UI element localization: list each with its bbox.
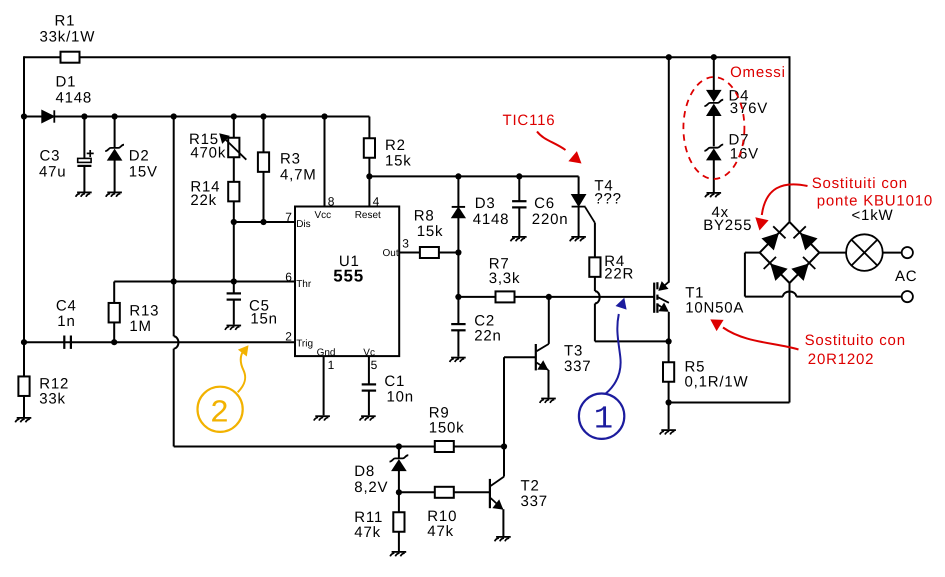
node R13 bottom on Trig wire	[111, 339, 117, 345]
svg-text:20R1202: 20R1202	[808, 351, 875, 368]
svg-text:T2: T2	[521, 478, 540, 495]
zener diode D7 16V	[704, 132, 758, 193]
svg-text:R13: R13	[129, 303, 159, 320]
wire bridge right corner to lamp	[819, 252, 846, 254]
ground under C2	[450, 358, 466, 362]
svg-text:Thr: Thr	[296, 279, 312, 290]
node at D1 anode / left vertical	[21, 113, 27, 119]
svg-text:C1: C1	[384, 373, 405, 390]
ground under C6	[511, 237, 527, 241]
svg-text:Dis: Dis	[296, 219, 310, 230]
diode D3 4148	[452, 176, 510, 252]
resistor R8 15k	[414, 208, 444, 259]
svg-text:4148: 4148	[473, 211, 510, 228]
node Thr wire x=233.8	[231, 278, 237, 284]
wire R5 bottom to ground	[668, 403, 670, 430]
AC terminal bottom	[902, 291, 913, 302]
svg-text:15n: 15n	[250, 311, 277, 328]
resistor R5 0,1R/1W	[663, 341, 748, 402]
svg-text:<1kW: <1kW	[852, 207, 894, 224]
node T3 collector on gate wire	[546, 294, 552, 300]
svg-text:15k: 15k	[417, 223, 444, 240]
resistor R3 4,7M	[258, 117, 317, 223]
wire T3 base to T2 collector vertical	[503, 357, 505, 446]
AC terminal top	[902, 247, 913, 258]
node C4/R12 junction	[21, 339, 27, 345]
node C6 top	[516, 173, 522, 179]
svg-text:47k: 47k	[354, 524, 381, 541]
svg-text:4,7M: 4,7M	[280, 167, 317, 184]
wire left vertical from top rail down to C4 node	[23, 56, 25, 342]
ground under pin1	[314, 416, 330, 420]
svg-text:555: 555	[333, 267, 364, 286]
wire long bottom rail from x=173.7 elbow to T2/T3 vertical	[174, 446, 504, 448]
svg-text:D3: D3	[475, 195, 496, 212]
ground under T4 cathode	[570, 237, 586, 241]
ground under C3	[76, 192, 92, 196]
svg-text:4: 4	[373, 194, 380, 208]
wire Out pin3 to R8	[399, 252, 419, 254]
svg-text:4148: 4148	[56, 90, 93, 107]
node rail Vcc	[321, 113, 327, 119]
blue circled 1 with squiggle arrow to gate wire	[579, 298, 627, 439]
node R7 left / C2 top	[455, 294, 461, 300]
svg-text:AC: AC	[895, 268, 917, 285]
wire lamp to AC top terminal	[883, 252, 902, 254]
node T1 source / R4 / R5	[666, 338, 672, 344]
svg-text:Reset: Reset	[355, 210, 381, 221]
node C3 top	[81, 113, 87, 119]
wire Vcc pin8 from rail	[324, 117, 326, 207]
svg-text:16V: 16V	[730, 146, 759, 163]
node D2 top	[112, 113, 118, 119]
svg-text:Vcc: Vcc	[315, 210, 332, 221]
red dashed ellipse around D4/D7 (Omessi)	[683, 77, 744, 179]
resistor R13 1M	[109, 282, 160, 343]
resistor R11 47k	[354, 492, 404, 551]
ground under D2	[106, 192, 122, 196]
svg-text:33k/1W: 33k/1W	[40, 29, 96, 46]
capacitor C6 220n	[512, 176, 568, 236]
node Thr wire x=173.7	[171, 278, 177, 284]
svg-text:ponte KBU1010: ponte KBU1010	[817, 192, 933, 209]
wire Thr pin6	[114, 281, 295, 283]
svg-text:470k: 470k	[190, 145, 226, 162]
wire R10 to T2 base	[454, 491, 490, 493]
svg-text:R1: R1	[55, 13, 76, 30]
transil D4 376V (bidirectional)	[704, 57, 768, 146]
svg-text:0,1R/1W: 0,1R/1W	[685, 374, 749, 391]
svg-text:1: 1	[328, 358, 335, 372]
ground under T3 emitter	[540, 399, 556, 403]
svg-text:D2: D2	[129, 148, 150, 165]
red label Sostituiti con ponte KBU1010 with arrow to bridge	[755, 175, 933, 231]
svg-text:3,3k: 3,3k	[489, 270, 521, 287]
wire gate node to T1 gate	[549, 296, 654, 298]
wire T1 drain from top rail	[668, 57, 670, 282]
transistor T2 337 (NPN)	[490, 447, 548, 537]
svg-text:Gnd: Gnd	[317, 347, 336, 358]
svg-text:C3: C3	[40, 148, 61, 165]
svg-text:47k: 47k	[427, 523, 454, 540]
svg-text:R2: R2	[385, 137, 406, 154]
IC U1 555 body	[295, 207, 399, 359]
svg-text:1: 1	[594, 400, 613, 437]
capacitor C4 1n	[56, 298, 77, 349]
resistor R4 22R on SCR gate	[589, 223, 634, 283]
svg-text:33k: 33k	[39, 391, 66, 408]
node R2 bottom branch to T4 wire	[366, 173, 372, 179]
capacitor C5 15n	[227, 293, 278, 327]
node rail x=173.7	[171, 113, 177, 119]
svg-text:22R: 22R	[604, 266, 634, 283]
wire T1 source to node	[668, 312, 670, 342]
thyristor T4 (SCR)	[572, 178, 622, 237]
resistor R12 33k	[18, 342, 69, 417]
capacitor C2 22n	[451, 297, 501, 357]
zener diode D8 8,2V	[354, 447, 408, 497]
ground under R11	[390, 552, 406, 556]
diode D1	[42, 74, 92, 123]
svg-text:150k: 150k	[429, 420, 465, 437]
wire top rail left segment (R1 row)	[24, 56, 61, 58]
node rail R15	[231, 113, 237, 119]
svg-text:8: 8	[328, 194, 335, 208]
resistor R10 47k	[427, 487, 457, 540]
red label Sostituito con 20R1202 with arrow to T1	[710, 319, 906, 368]
wire R5 node to bridge bottom	[669, 402, 790, 404]
svg-text:47u: 47u	[39, 164, 66, 181]
node top rail D4	[711, 54, 717, 60]
svg-text:15k: 15k	[385, 153, 412, 170]
wire vertical Thr/C5 branch (x=173.7) with hop over Trig wire	[173, 117, 175, 282]
ground under C5	[225, 326, 241, 330]
svg-text:15V: 15V	[129, 164, 158, 181]
svg-text:Trig: Trig	[296, 339, 313, 350]
svg-text:Sostituiti con: Sostituiti con	[812, 175, 908, 192]
wire R14 bottom to Thr and C5	[233, 222, 235, 293]
wire R7 to T3 collector node	[515, 296, 549, 298]
capacitor C3 (electrolytic 47u)	[39, 117, 94, 192]
wire bridge left corner to AC bottom rail	[745, 252, 760, 254]
ground under C1	[360, 416, 376, 420]
zener diode D2 15V	[105, 117, 158, 192]
node R5 bottom	[666, 399, 672, 405]
node R8/D3	[455, 249, 461, 255]
resistor R1	[40, 13, 96, 63]
wire Gnd pin1 to ground	[323, 356, 325, 415]
svg-text:Out: Out	[383, 248, 399, 259]
node D8 bottom / R10 / R11	[396, 489, 402, 495]
resistor R2 15k	[364, 117, 412, 207]
svg-text:C6: C6	[534, 195, 555, 212]
node D3 top on T4 wire	[455, 173, 461, 179]
svg-text:???: ???	[594, 191, 621, 208]
wire D8 node to R10	[399, 491, 435, 493]
transistor T3 337 (NPN)	[504, 297, 591, 398]
svg-text:5: 5	[371, 358, 378, 372]
svg-text:337: 337	[564, 358, 591, 375]
svg-text:Omessi: Omessi	[730, 64, 786, 81]
wire Trig pin2	[24, 341, 295, 343]
svg-text:1M: 1M	[129, 318, 151, 335]
orange circled 2 with squiggle arrow to Trig wire	[198, 345, 249, 432]
trimmer R15 470k	[189, 117, 246, 162]
node R9 right on T2 collector	[501, 443, 507, 449]
node Dis wire x=233.8	[231, 219, 237, 225]
svg-text:T3: T3	[564, 343, 583, 360]
svg-text:D8: D8	[354, 463, 375, 480]
svg-text:376V: 376V	[730, 100, 768, 117]
svg-text:10n: 10n	[387, 389, 414, 406]
ground under T2 emitter	[495, 537, 511, 541]
svg-text:337: 337	[521, 493, 548, 510]
bridge rectifier 4x BY255	[760, 222, 820, 283]
svg-text:TIC116: TIC116	[503, 112, 556, 129]
ground under R5	[660, 430, 676, 434]
wire reset-row to thyristor T4	[369, 175, 578, 177]
svg-text:BY255: BY255	[703, 217, 752, 234]
resistor R14 22k	[190, 157, 239, 222]
svg-text:2: 2	[210, 394, 229, 431]
svg-text:C4: C4	[56, 298, 77, 315]
node rail R3	[260, 113, 266, 119]
wire main 15V rail (D1 row)	[24, 116, 369, 118]
wire AC bottom rail with hop over bridge-bottom vertical	[745, 296, 783, 298]
ground under R12	[15, 418, 31, 422]
wire R8 to D3 node	[439, 252, 458, 254]
capacitor C1 10n on pin5	[362, 356, 414, 415]
svg-text:1n: 1n	[57, 313, 75, 330]
svg-text:Sostituito con: Sostituito con	[805, 332, 906, 349]
svg-text:10N50A: 10N50A	[685, 300, 744, 317]
IGBT/MOSFET T1 10N50A	[654, 281, 744, 316]
svg-text:R3: R3	[280, 151, 301, 168]
svg-text:22n: 22n	[474, 328, 501, 345]
node top rail T1 drain	[666, 54, 672, 60]
red label TIC116 with arrow	[503, 112, 582, 163]
wire R4 down with hop over gate wire, then right to T1 source node	[594, 277, 596, 292]
resistor R9 150k	[429, 405, 465, 453]
svg-text:22k: 22k	[190, 192, 217, 209]
wire Out/R7 row	[457, 253, 459, 297]
resistor R7 3,3k	[489, 256, 521, 303]
node Dis wire R3 bottom	[260, 219, 266, 225]
node D8 top on bottom rail	[396, 443, 402, 449]
svg-text:D1: D1	[56, 74, 77, 91]
wire Dis pin7	[234, 221, 295, 223]
ground under D7	[705, 193, 721, 197]
wire top rail corner down to bridge top corner	[789, 56, 791, 222]
svg-text:3: 3	[402, 236, 409, 250]
svg-text:8,2V: 8,2V	[354, 479, 388, 496]
lamp <1kW	[846, 207, 893, 271]
svg-text:220n: 220n	[532, 211, 569, 228]
wire top rail right segment to bridge	[80, 56, 790, 58]
